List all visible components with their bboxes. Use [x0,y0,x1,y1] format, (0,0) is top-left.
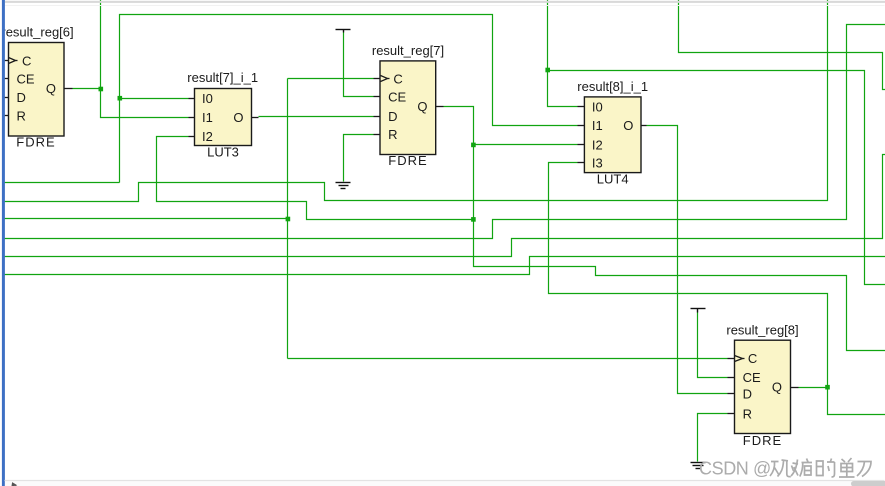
wire reg7 Q to LUT3 I2 [157,137,474,220]
svg-text:C: C [393,72,402,87]
wire clock vertical [287,79,289,359]
wire reg8 CE from VCC [698,313,728,378]
junction node I0 tap [118,96,123,101]
wire reg8 R to GND [698,414,728,462]
svg-text:D: D [17,90,26,105]
power vcc for reg7 CE [336,30,351,33]
junction node clk [286,217,291,222]
wire LUT4 O to reg8 D [647,126,728,394]
wire reg7 R to GND [344,135,374,182]
svg-text:result_reg[8]: result_reg[8] [726,322,798,337]
svg-text:LUT3: LUT3 [207,144,239,159]
svg-text:LUT4: LUT4 [597,172,629,187]
ground for reg7 R [336,183,351,189]
svg-text:R: R [388,127,397,142]
svg-text:O: O [623,118,633,133]
svg-text:Q: Q [417,99,427,114]
wire reg7 Q to LUT4 I2 [474,144,578,146]
watermark CSDN [699,459,771,479]
wire bus6 jog right [5,257,885,275]
svg-text:C: C [748,351,757,366]
wire net to LUT4 I0 from top [548,0,578,107]
svg-text:D: D [388,109,397,124]
wire net result[6] left stub [5,182,120,184]
svg-text:Q: Q [46,81,56,96]
flip-flop result_reg[7] [372,43,444,168]
svg-text:FDRE: FDRE [743,433,782,448]
svg-text:result[7]_i_1: result[7]_i_1 [187,70,258,85]
wire reg7 Q net [444,107,885,351]
power vcc for reg8 CE [691,309,706,313]
svg-text:CSDN @: CSDN @ [699,459,771,479]
flip-flop result_reg[8] [726,322,798,447]
LUT result[8]_i_1 LUT4 [577,79,648,187]
ground for reg8 R [691,463,706,469]
svg-text:C: C [22,53,31,68]
svg-text:CE: CE [743,370,761,385]
wire reg8 Q stub [799,387,828,389]
svg-text:D: D [743,386,752,401]
svg-text:R: R [17,109,26,124]
svg-text:O: O [233,110,243,125]
bottom scrollbar area [5,481,885,486]
svg-text:I2: I2 [202,129,213,144]
svg-text:I1: I1 [202,110,213,125]
junction node LUT4 I2 tap [471,143,476,148]
wire bus4 to top right [5,25,885,239]
svg-text:FDRE: FDRE [388,153,427,168]
junction node LUT4 I0 tap [545,68,550,73]
top frame line [5,1,885,3]
svg-text:result[8]_i_1: result[8]_i_1 [577,79,648,94]
scrollbar thumb bottom right [851,481,885,486]
svg-text:R: R [743,406,752,421]
wire bus5 jog right [5,155,885,257]
wire clock bus from left [5,218,288,220]
wire reg6 Q to LUT3 I1 [73,0,101,89]
svg-text:FDRE: FDRE [16,134,55,149]
flip-flop result_reg[6] [1,25,73,150]
pins C CE D R clock stubs of result_reg[6] [3,58,73,116]
wire reg8 Q to LUT4 I3 [549,163,885,415]
svg-text:I1: I1 [592,118,603,133]
wire net I0 east branch [548,71,885,285]
svg-text:CE: CE [388,90,406,105]
svg-text:result_reg[6]: result_reg[6] [1,25,73,40]
svg-text:I2: I2 [592,138,603,153]
svg-text:I0: I0 [202,91,213,106]
wire jog net left [5,0,828,202]
watermark CJK glyph strokes [770,458,871,477]
junction node reg8 Q [825,385,830,390]
LUT result[7]_i_1 LUT3 [187,70,258,159]
junction node reg6 Q [99,87,104,92]
svg-text:result_reg[7]: result_reg[7] [372,43,444,58]
svg-text:Q: Q [772,379,782,394]
wire net result[6] to LUT3 I0 [120,98,189,100]
svg-text:I0: I0 [592,100,603,115]
svg-text:CE: CE [17,72,35,87]
wire LUT3 O to reg7 D [259,116,374,118]
junction node LUT3 I2 tap [471,217,476,222]
wire clock to reg7 C [288,78,374,80]
scrollbar arrow bottom left [12,483,16,486]
wire top right net [679,0,885,90]
wire reg7 CE from VCC [344,33,374,97]
svg-text:I3: I3 [592,155,603,170]
wire clock to reg8 C [288,358,728,360]
left blue scroll bar [2,0,5,486]
wire net result[6] top rect horizontal [120,15,578,183]
